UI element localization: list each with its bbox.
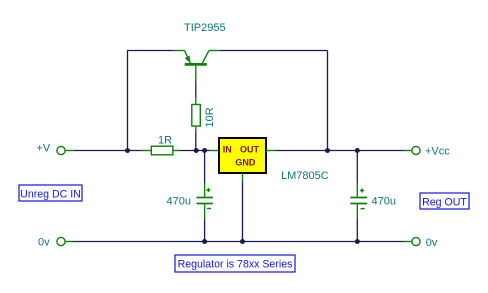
wire +V terminal stub	[65, 150, 74, 152]
junction C1/0v rail	[202, 239, 207, 244]
junction node 10R/rail	[194, 148, 199, 153]
svg-text:470u: 470u	[372, 196, 396, 208]
wire +V rail to 1R	[74, 150, 141, 152]
resistor 10R	[192, 97, 201, 132]
terminal 0v right	[412, 237, 420, 245]
transistor Q1 TIP2955	[173, 51, 220, 82]
capacitor C1 470u	[204, 151, 206, 184]
wire base to 10R	[195, 81, 197, 97]
regulator GND stub	[242, 173, 244, 181]
wire top-right horizontal	[220, 50, 328, 52]
capacitor C2 470u	[356, 151, 358, 184]
svg-text:+Vcc: +Vcc	[425, 146, 450, 158]
svg-text:Regulator is 78xx Series: Regulator is 78xx Series	[178, 259, 293, 271]
terminal 0v left	[57, 237, 65, 245]
junction collector/rail	[325, 148, 330, 153]
junction at left vertical	[125, 148, 130, 153]
svg-text:1R: 1R	[158, 135, 172, 147]
junction C2/0v rail	[355, 239, 360, 244]
svg-text:LM7805C: LM7805C	[281, 170, 329, 182]
junction C2/rail	[355, 148, 360, 153]
svg-text:GND: GND	[235, 157, 256, 167]
resistor 1R	[141, 146, 180, 155]
note box Regulator is 78xx Series	[175, 255, 295, 272]
wire top-left horizontal	[127, 50, 173, 52]
note box Unreg DC IN	[19, 185, 82, 201]
wire 0v rail	[73, 241, 403, 243]
svg-text:0v: 0v	[426, 237, 438, 249]
wire 0v stub left	[65, 241, 73, 243]
wire 1R to regulator	[180, 150, 211, 152]
svg-text:IN: IN	[223, 144, 232, 154]
wire 10R to node	[195, 132, 197, 151]
svg-text:+V: +V	[37, 143, 51, 155]
regulator OUT stub	[266, 150, 276, 152]
junction GND/0v rail	[240, 239, 245, 244]
wire top-right vertical	[327, 51, 329, 151]
svg-text:OUT: OUT	[240, 144, 260, 154]
terminal +Vcc	[403, 150, 412, 152]
wire regulator OUT to +Vcc	[276, 150, 403, 152]
transistor emitter arrow	[185, 56, 191, 63]
svg-text:Unreg DC IN: Unreg DC IN	[20, 188, 81, 200]
wire 0v stub right	[403, 241, 412, 243]
wire top-left vertical	[127, 51, 129, 151]
terminal +V	[57, 146, 65, 154]
note box Reg OUT	[420, 193, 469, 209]
svg-text:0v: 0v	[38, 237, 50, 249]
wire GND to 0v rail	[242, 181, 244, 242]
junction node C1/rail	[202, 148, 207, 153]
regulator U1 LM7805C	[210, 150, 219, 152]
svg-text:470u: 470u	[167, 196, 191, 208]
svg-text:TIP2955: TIP2955	[184, 22, 226, 34]
svg-text:10R: 10R	[204, 107, 216, 127]
svg-text:Reg OUT: Reg OUT	[422, 196, 467, 208]
